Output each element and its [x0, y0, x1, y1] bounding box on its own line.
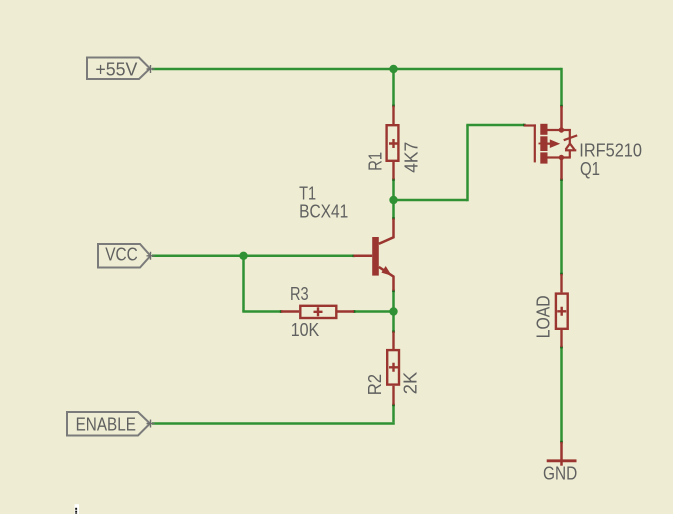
resistor R2: [387, 332, 399, 405]
resistor LOAD: [556, 274, 568, 347]
wire VCC branch down: [242, 256, 245, 312]
net flag VCC: [98, 244, 151, 268]
junction R1 bottom node: [389, 196, 397, 204]
svg-text:IRF5210: IRF5210: [579, 140, 642, 160]
svg-text:Q1: Q1: [580, 159, 600, 179]
svg-text:R3: R3: [290, 284, 309, 304]
svg-text:4K7: 4K7: [401, 142, 421, 173]
svg-text:10K: 10K: [291, 320, 320, 340]
pin cross +55V tip: [147, 65, 155, 73]
svg-text:R2: R2: [365, 374, 385, 395]
junction on +55V rail: [389, 65, 397, 73]
wire R3 right to emitter node: [354, 310, 394, 313]
junction emitter node: [389, 307, 397, 315]
net flag ENABLE: [67, 412, 150, 436]
wire VCC to base: [152, 255, 354, 258]
transistor T1: [354, 219, 394, 291]
svg-text:+55V: +55V: [95, 60, 137, 80]
wire +55V rail right vertical: [560, 68, 563, 106]
junction VCC node: [239, 252, 247, 260]
svg-text:GND: GND: [543, 463, 577, 483]
wire gate net horizontal to gate: [466, 124, 524, 127]
frame dotted mark bottom left: [75, 504, 79, 514]
svg-text:R1: R1: [365, 152, 385, 171]
wire Q1 drain to LOAD: [560, 180, 563, 275]
net flag +55V: [87, 58, 150, 80]
svg-text:VCC: VCC: [105, 245, 138, 265]
svg-text:2K: 2K: [400, 372, 420, 394]
pin connection marks (dark green): [280, 105, 563, 444]
pin cross VCC tip: [147, 252, 155, 260]
resistor R1: [387, 106, 399, 180]
wire emitter vertical: [392, 291, 395, 332]
wire ENABLE horizontal: [152, 422, 395, 425]
resistor R3: [281, 306, 354, 318]
svg-text:LOAD: LOAD: [533, 295, 553, 338]
wire gate net horizontal from junction: [394, 199, 468, 202]
pin cross ENABLE tip: [147, 420, 155, 428]
ground: [547, 442, 577, 466]
svg-text:BCX41: BCX41: [299, 201, 348, 221]
wire gate net vertical: [466, 125, 469, 201]
wire to R3 left: [242, 310, 281, 313]
wire R1 bottom to collector: [392, 179, 395, 218]
wire +55V rail horizontal: [152, 68, 562, 71]
svg-text:ENABLE: ENABLE: [76, 414, 136, 434]
wire LOAD bottom to GND: [560, 347, 563, 442]
wire R2 bottom vertical: [392, 405, 395, 423]
wire +55V to R1 top: [392, 69, 395, 106]
MOSFET Q1: [524, 106, 577, 180]
